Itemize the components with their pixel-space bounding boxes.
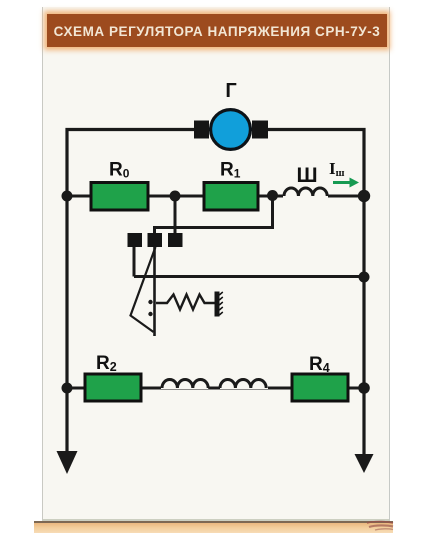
svg-text:Ш: Ш <box>296 164 317 187</box>
ground arrow right <box>355 454 374 473</box>
svg-text:Iш: Iш <box>329 159 345 179</box>
current arrow Iш <box>333 181 352 184</box>
wire row2 horizontal <box>67 195 364 198</box>
svg-text:R0: R0 <box>109 160 130 181</box>
spring <box>156 295 215 310</box>
resistor R1 <box>204 183 258 211</box>
armature lever diagonal <box>131 247 156 332</box>
contact square 2 <box>148 233 163 247</box>
svg-text:R4: R4 <box>309 354 330 375</box>
node dot left row2 <box>62 191 73 202</box>
node dot right row2 <box>358 190 370 202</box>
contact square 3 <box>168 233 183 247</box>
node dot R0-R1 <box>170 191 181 202</box>
generator G circle <box>211 110 251 150</box>
relay coil right <box>220 380 266 389</box>
contact point upper <box>148 300 152 304</box>
wire dot to contact3 <box>174 196 177 233</box>
contact square 1 <box>128 233 143 247</box>
generator terminal left <box>194 121 209 139</box>
svg-text:R2: R2 <box>96 353 117 374</box>
ground arrow left <box>57 451 78 474</box>
contact point lower <box>148 312 152 316</box>
wire mid horizontal to right bus <box>134 275 364 278</box>
winding Ш gap cover <box>283 190 328 200</box>
wire main loop <box>67 130 364 457</box>
armature post vertical <box>153 247 156 336</box>
node dot left row3 <box>62 383 73 394</box>
coil row3 gap cover <box>161 381 268 389</box>
wire contact1 down <box>133 247 136 277</box>
node dot R1-right <box>267 190 278 201</box>
svg-text:R1: R1 <box>220 160 241 181</box>
node dot right mid <box>359 272 370 283</box>
spring anchor wall <box>215 292 220 317</box>
wire row3 horizontal <box>67 387 364 390</box>
generator terminal right <box>252 121 268 139</box>
resistor R0 <box>91 183 148 211</box>
svg-text:Г: Г <box>225 80 236 102</box>
resistor R2 <box>85 374 141 401</box>
winding Ш coil <box>284 188 327 196</box>
wire coil link <box>208 387 220 390</box>
node dot right row3 <box>358 382 370 394</box>
resistor R4 <box>292 374 348 401</box>
relay coil left <box>162 380 208 389</box>
wire R1 node to contact2 <box>155 196 273 233</box>
